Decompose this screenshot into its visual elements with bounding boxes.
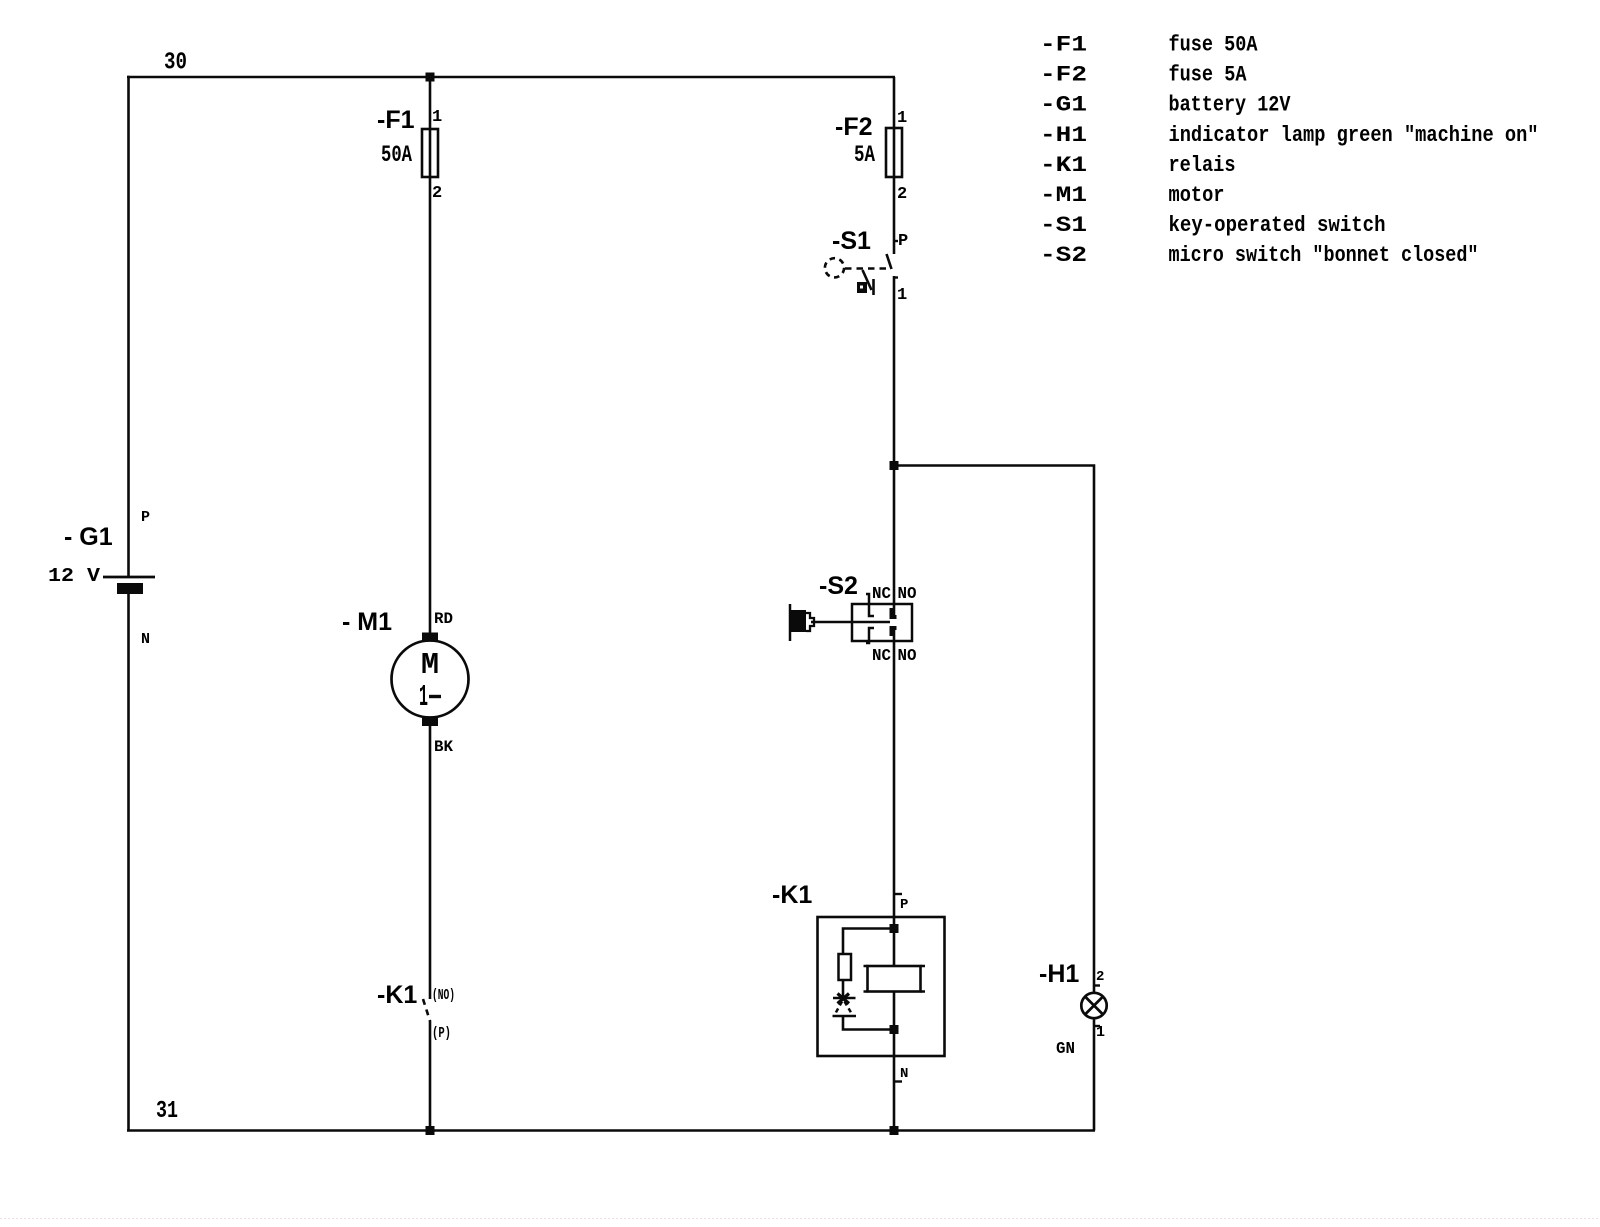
micro switch S2 plunger bracket [789, 604, 792, 641]
resistor inside K1 [839, 954, 852, 980]
micro switch S2 plunger block [791, 610, 806, 632]
svg-text:NC: NC [872, 647, 891, 666]
svg-text:-S1: -S1 [832, 227, 871, 255]
legend component list [1040, 33, 1539, 269]
key switch S1 blade [887, 254, 892, 269]
key switch S1 actuator mark [863, 270, 872, 290]
wire S2 to K1 coil [893, 628, 896, 966]
suppressor diode dashed triangle [835, 1002, 853, 1016]
wire S1 to S2 through node A [893, 276, 896, 617]
relay K1 box [818, 917, 945, 1056]
key switch S1 key circle [825, 258, 844, 277]
svg-text:fuse 5A: fuse 5A [1169, 63, 1248, 88]
relay contact K1 blade [423, 999, 430, 1021]
svg-text:1: 1 [897, 109, 907, 128]
lamp H1 pin 2 tick [1094, 984, 1100, 986]
svg-text:motor: motor [1169, 183, 1225, 208]
svg-text:-K1: -K1 [377, 981, 417, 1009]
svg-text:31: 31 [156, 1098, 178, 1125]
micro switch S2 NO contact lower [892, 628, 897, 636]
wire K1 contact to node 31 [429, 1021, 432, 1131]
micro switch S2 plunger arrow [806, 613, 814, 631]
motor M1 [392, 641, 469, 718]
svg-text:2: 2 [1096, 969, 1104, 985]
bus 31 bottom rail wire [127, 1129, 1095, 1132]
wire F1 branch from node 30 [429, 77, 432, 633]
svg-text:GN: GN [1056, 1040, 1075, 1059]
svg-text:- M1: - M1 [342, 608, 392, 636]
wire branch to lamp column [894, 466, 1095, 994]
relay K1 pin P tick [894, 893, 902, 895]
motor M1 top terminal [422, 633, 438, 641]
wire resistor to diode [842, 980, 845, 997]
micro switch S2 NC stub upper [866, 594, 874, 616]
svg-text:5A: 5A [854, 142, 875, 168]
svg-text:-G1: -G1 [1040, 93, 1087, 118]
svg-text:12 V: 12 V [48, 565, 101, 587]
svg-text:1: 1 [1096, 1024, 1105, 1041]
suppressor diode inside K1 cathode bar [833, 997, 856, 1000]
svg-text:N: N [141, 631, 150, 648]
lamp H1 pin 1 tick [1094, 1025, 1100, 1027]
wire F2 branch from node 30 [893, 77, 896, 254]
svg-text:30: 30 [164, 50, 187, 77]
relay K1 coil [868, 966, 921, 992]
svg-text:RD: RD [434, 610, 453, 628]
key switch S1 linkage dashed line [845, 267, 890, 270]
junction K1 top [890, 924, 899, 933]
svg-text:-K1: -K1 [1040, 153, 1087, 178]
key switch S1 pin 1 tick [894, 276, 898, 278]
svg-text:M: M [421, 648, 439, 683]
junction K1 bottom [890, 1025, 899, 1034]
svg-text:P: P [898, 232, 908, 251]
svg-text:- G1: - G1 [64, 523, 113, 551]
svg-text:1: 1 [432, 108, 442, 127]
svg-text:NC: NC [872, 585, 891, 604]
svg-text:-F1: -F1 [1040, 33, 1087, 58]
svg-text:2: 2 [897, 185, 907, 204]
svg-text:NO: NO [898, 647, 917, 666]
lamp H1 cross [1085, 997, 1103, 1015]
battery G1 negative plate [117, 583, 143, 594]
svg-text:N: N [900, 1066, 908, 1082]
svg-text:-S1: -S1 [1040, 213, 1087, 238]
svg-text:micro switch "bonnet closed": micro switch "bonnet closed" [1169, 243, 1479, 268]
wire left rail upper (battery P side) [127, 76, 130, 577]
svg-text:1: 1 [897, 286, 907, 305]
svg-text:fuse 50A: fuse 50A [1169, 33, 1259, 58]
fuse F2 [886, 128, 902, 177]
svg-text:-H1: -H1 [1040, 123, 1087, 148]
wire diode to bottom junction [843, 1016, 894, 1030]
svg-text:-S2: -S2 [1040, 243, 1087, 268]
faint artifact line at bottom [0, 1218, 1600, 1220]
svg-text:(NO): (NO) [432, 987, 455, 1004]
junction node A (branch to H1) [890, 461, 899, 470]
suppressor diode bowtie [838, 994, 850, 1004]
micro switch S2 body box [852, 604, 912, 641]
svg-text:-S2: -S2 [819, 572, 858, 600]
micro switch S2 plunger rod [811, 621, 890, 624]
svg-text:BK: BK [434, 738, 453, 756]
svg-text:-F2: -F2 [835, 113, 873, 141]
bus 30 top rail wire [127, 76, 895, 79]
relay K1 coil corner ticks [864, 966, 926, 992]
key switch S1 pin P tick [894, 240, 898, 242]
relay K1 pin N tick [894, 1080, 902, 1082]
svg-text:battery 12V: battery 12V [1169, 93, 1292, 118]
lamp H1 circle [1081, 993, 1106, 1018]
svg-text:-F2: -F2 [1040, 63, 1087, 88]
svg-text:relais: relais [1169, 153, 1236, 178]
junction node 30 / F1 [426, 73, 435, 82]
svg-text:P: P [141, 509, 150, 526]
svg-text:indicator lamp green "machine: indicator lamp green "machine on" [1169, 123, 1539, 148]
svg-text:-K1: -K1 [772, 881, 812, 909]
svg-text:-M1: -M1 [1040, 183, 1087, 208]
svg-text:50A: 50A [381, 142, 412, 168]
svg-text:2: 2 [432, 184, 442, 203]
battery G1 positive plate [103, 576, 155, 579]
wire H1 lamp to node 31 [1093, 1018, 1096, 1131]
motor M1 bottom terminal [422, 718, 438, 727]
svg-text:-F1: -F1 [377, 106, 415, 134]
micro switch S2 NC stub lower [866, 628, 874, 643]
svg-text:(P): (P) [432, 1025, 451, 1042]
junction node 31 / M1 branch [426, 1126, 435, 1135]
svg-text:NO: NO [898, 585, 917, 604]
suppressor diode base line [833, 1015, 857, 1018]
svg-text:-H1: -H1 [1039, 960, 1079, 988]
junction node 31 / K1 branch [890, 1126, 899, 1135]
svg-text:P: P [900, 897, 908, 913]
wire left rail lower (battery N side) [127, 592, 130, 1131]
micro switch S2 NO contact upper [892, 608, 897, 617]
wire K1 resistor branch top [843, 929, 894, 955]
fuse F1 [422, 129, 438, 177]
wire K1 coil to bottom of relay box [893, 992, 896, 1131]
svg-text:key-operated switch: key-operated switch [1169, 213, 1386, 238]
wire M1 to K1 contact [429, 726, 432, 999]
svg-text:1: 1 [419, 680, 428, 715]
